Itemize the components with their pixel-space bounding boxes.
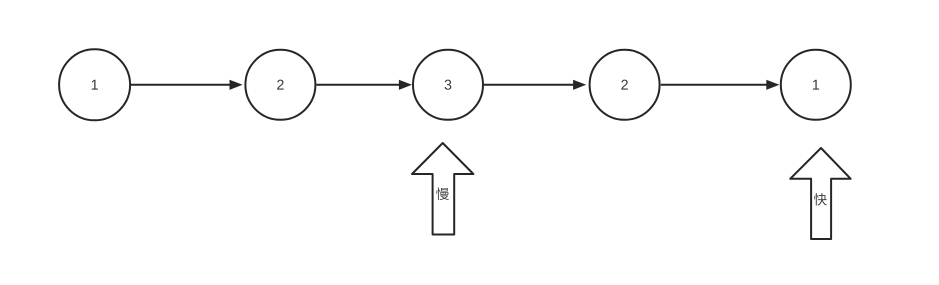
wire node3 to node4 <box>484 80 586 90</box>
wire node1 to node2 <box>131 80 243 90</box>
node 5 (tail) <box>781 50 851 120</box>
node 4 value label "2" <box>621 80 627 90</box>
node 5 value label "1" <box>813 80 819 90</box>
node 3 value label "3" <box>445 80 452 90</box>
wire node4 to node5 <box>661 80 780 90</box>
fast pointer label (CJK glyph kuai4 fast) <box>814 193 827 206</box>
wire node2 to node3 <box>316 80 412 90</box>
node 1 (head) <box>59 49 130 120</box>
node 4 <box>590 50 660 120</box>
node 1 value label "1" <box>92 80 98 90</box>
slow pointer block arrow <box>412 143 473 235</box>
fast pointer block arrow <box>790 148 851 239</box>
slow pointer label (CJK glyph man4 slow) <box>436 187 449 200</box>
node 3 (middle) <box>413 50 483 120</box>
node 2 <box>245 50 315 120</box>
node 2 value label "2" <box>277 80 283 90</box>
